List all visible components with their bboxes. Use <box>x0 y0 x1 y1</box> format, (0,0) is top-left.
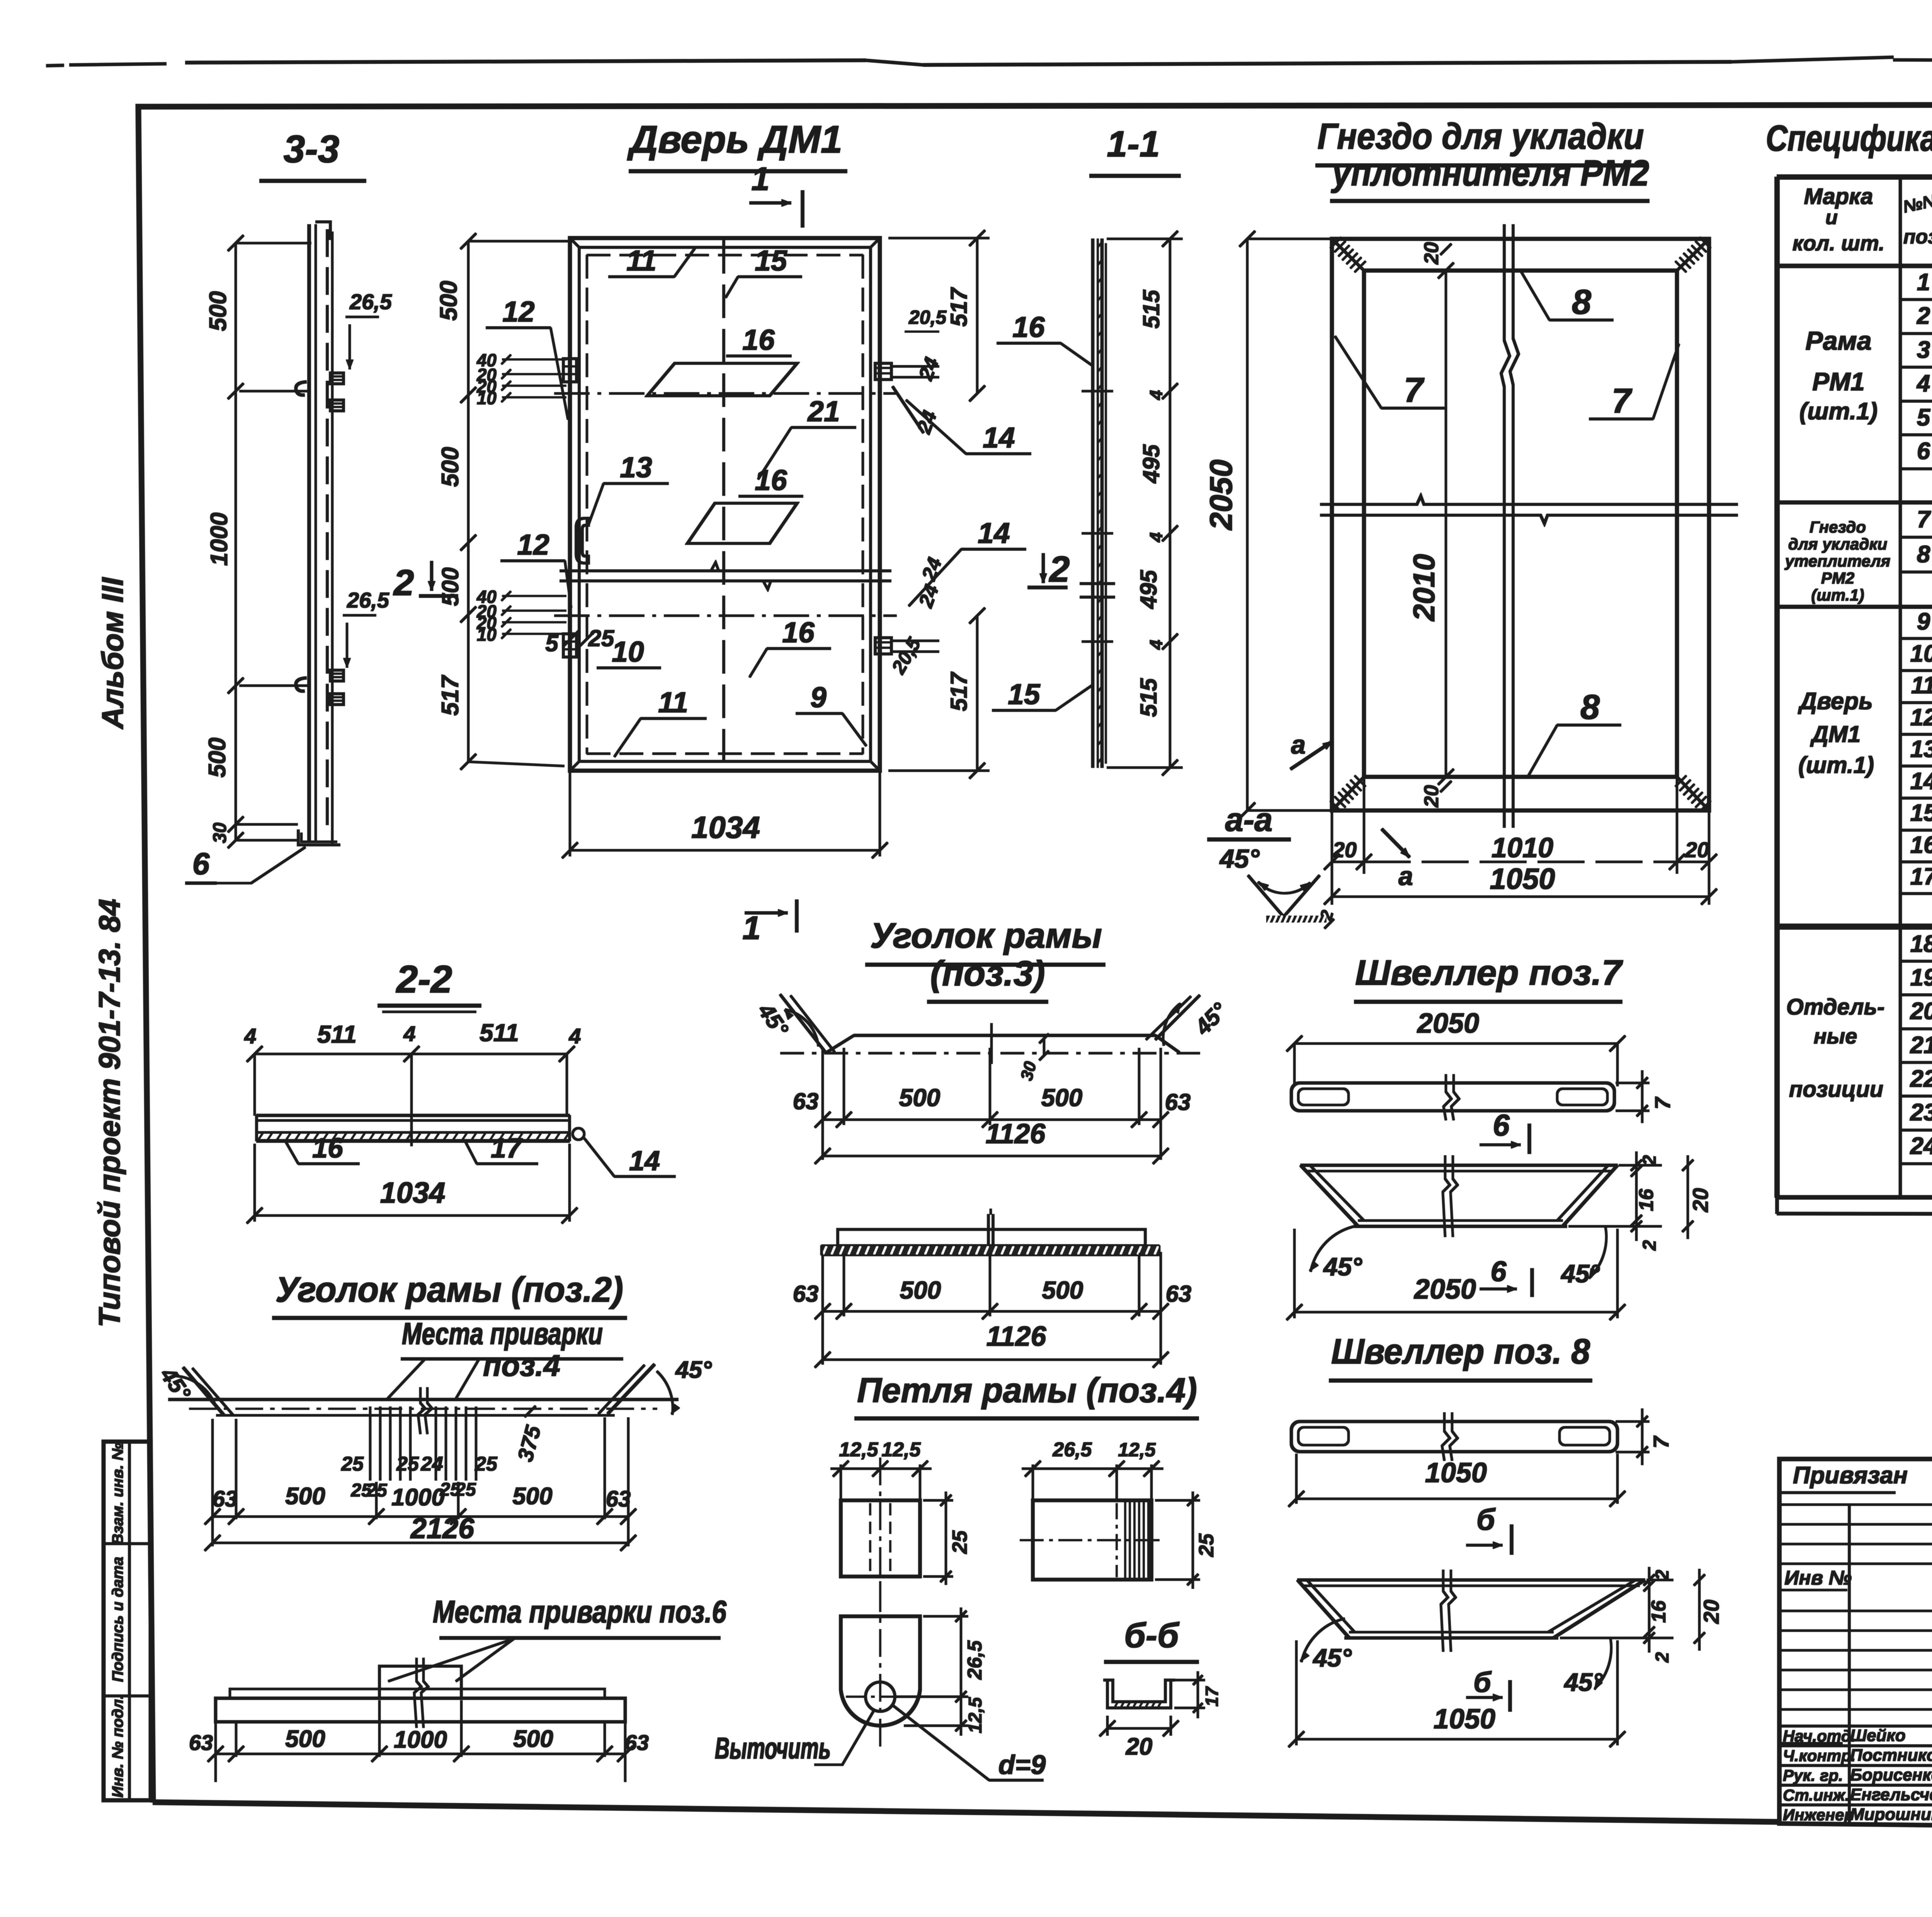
svg-text:14: 14 <box>978 517 1010 549</box>
svg-text:2: 2 <box>1652 1652 1673 1663</box>
svg-text:Швеллер поз. 8: Швеллер поз. 8 <box>1331 1332 1590 1371</box>
svg-text:4: 4 <box>1146 640 1166 650</box>
svg-text:12,5: 12,5 <box>965 1697 986 1733</box>
svg-text:7: 7 <box>1650 1096 1675 1110</box>
svg-text:13: 13 <box>620 451 652 484</box>
svg-text:17: 17 <box>491 1133 523 1164</box>
svg-text:511: 511 <box>480 1019 519 1047</box>
svg-text:63: 63 <box>793 1088 819 1114</box>
svg-text:13: 13 <box>1910 736 1932 763</box>
svg-text:17: 17 <box>1202 1686 1222 1707</box>
svg-text:позиции: позиции <box>1789 1077 1883 1102</box>
svg-text:12,5: 12,5 <box>1118 1439 1156 1461</box>
svg-text:63: 63 <box>625 1730 649 1755</box>
svg-text:Мирошникова: Мирошникова <box>1850 1805 1932 1824</box>
svg-text:Дверь ДМ1: Дверь ДМ1 <box>627 118 842 161</box>
svg-text:26,5: 26,5 <box>1052 1439 1092 1461</box>
svg-text:12: 12 <box>502 295 534 328</box>
svg-text:12,5: 12,5 <box>881 1439 921 1461</box>
svg-text:3-3: 3-3 <box>284 128 340 171</box>
svg-text:поз.4: поз.4 <box>483 1348 560 1382</box>
svg-text:511: 511 <box>317 1020 357 1048</box>
svg-text:10: 10 <box>1910 640 1932 667</box>
svg-text:45°: 45° <box>1323 1252 1362 1281</box>
svg-text:15: 15 <box>1910 800 1932 826</box>
svg-text:11: 11 <box>1911 672 1932 699</box>
svg-text:1: 1 <box>751 161 769 197</box>
svg-text:20: 20 <box>1910 998 1932 1025</box>
svg-text:7: 7 <box>1649 1435 1673 1449</box>
svg-text:7: 7 <box>1917 506 1931 533</box>
svg-text:Места приварки: Места приварки <box>402 1316 603 1351</box>
svg-text:24: 24 <box>915 354 944 383</box>
svg-text:Рама: Рама <box>1805 326 1871 356</box>
svg-text:500: 500 <box>205 291 231 331</box>
svg-text:поз.: поз. <box>1903 226 1932 248</box>
svg-text:Места приварки поз.6: Места приварки поз.6 <box>433 1594 727 1629</box>
svg-text:20: 20 <box>1420 242 1443 265</box>
svg-text:4: 4 <box>1146 390 1166 400</box>
svg-text:20: 20 <box>1420 785 1443 808</box>
svg-text:ДМ1: ДМ1 <box>1810 721 1861 747</box>
svg-text:Спецификация стали на герметич: Спецификация стали на герметическую двер… <box>1766 118 1932 159</box>
svg-text:Нач.отд.: Нач.отд. <box>1783 1727 1855 1745</box>
svg-text:1126: 1126 <box>986 1119 1046 1149</box>
svg-text:16: 16 <box>742 323 775 356</box>
svg-text:Рук. гр.: Рук. гр. <box>1783 1766 1843 1784</box>
svg-text:1: 1 <box>1917 269 1930 296</box>
svg-text:20: 20 <box>1688 1188 1713 1212</box>
svg-text:Дверь: Дверь <box>1798 688 1873 715</box>
svg-text:45°: 45° <box>1219 844 1260 873</box>
svg-text:19: 19 <box>1910 964 1932 991</box>
svg-text:Гнездо для укладки: Гнездо для укладки <box>1318 116 1644 157</box>
svg-text:(шт.1): (шт.1) <box>1798 752 1874 778</box>
svg-text:Гнездо: Гнездо <box>1810 518 1866 536</box>
svg-text:25: 25 <box>341 1453 364 1475</box>
svg-text:б: б <box>1476 1502 1496 1536</box>
svg-text:Уголок рамы: Уголок рамы <box>870 916 1102 955</box>
svg-text:16: 16 <box>312 1133 344 1164</box>
svg-text:2: 2 <box>393 562 414 603</box>
svg-text:7: 7 <box>1404 371 1425 410</box>
svg-text:20,5: 20,5 <box>908 306 947 328</box>
svg-text:1126: 1126 <box>986 1321 1047 1352</box>
svg-text:500: 500 <box>285 1726 325 1752</box>
svg-text:12,5: 12,5 <box>839 1439 878 1461</box>
svg-text:45°: 45° <box>1312 1643 1352 1672</box>
svg-text:45°: 45° <box>1190 998 1232 1040</box>
svg-text:Подпись и дата: Подпись и дата <box>109 1557 126 1682</box>
svg-text:Альбом III: Альбом III <box>95 577 129 730</box>
svg-text:14: 14 <box>629 1146 660 1176</box>
svg-text:1050: 1050 <box>1490 863 1555 896</box>
svg-text:25: 25 <box>588 625 615 651</box>
svg-text:63: 63 <box>793 1281 819 1307</box>
svg-text:500: 500 <box>1041 1084 1083 1112</box>
svg-text:2050: 2050 <box>1204 460 1239 531</box>
svg-text:16: 16 <box>1012 311 1045 343</box>
svg-text:9: 9 <box>1917 608 1930 635</box>
svg-text:1000: 1000 <box>391 1484 445 1511</box>
svg-text:2050: 2050 <box>1413 1274 1476 1305</box>
svg-text:2050: 2050 <box>1417 1008 1479 1039</box>
svg-text:18: 18 <box>1910 931 1932 957</box>
svg-text:4: 4 <box>1146 532 1166 543</box>
svg-text:5: 5 <box>1917 404 1931 431</box>
svg-text:4: 4 <box>403 1021 415 1046</box>
svg-text:500: 500 <box>435 281 462 320</box>
svg-text:20: 20 <box>1699 1600 1723 1624</box>
svg-text:26,5: 26,5 <box>964 1640 986 1680</box>
svg-text:30: 30 <box>1017 1059 1040 1083</box>
svg-text:Привязан: Привязан <box>1793 1462 1908 1489</box>
svg-text:Ст.инж.: Ст.инж. <box>1783 1786 1849 1804</box>
svg-text:2: 2 <box>1917 303 1930 329</box>
svg-text:16: 16 <box>782 616 815 649</box>
svg-text:11: 11 <box>658 686 688 718</box>
svg-text:495: 495 <box>1136 569 1162 609</box>
svg-text:и: и <box>1825 206 1838 229</box>
svg-text:d=9: d=9 <box>998 1750 1046 1780</box>
svg-text:1000: 1000 <box>206 512 233 566</box>
svg-text:Инв. № подл.: Инв. № подл. <box>109 1695 126 1798</box>
svg-text:3: 3 <box>1917 337 1930 363</box>
svg-text:517: 517 <box>437 675 464 716</box>
svg-text:12: 12 <box>1910 704 1932 731</box>
svg-text:1034: 1034 <box>380 1176 445 1209</box>
svg-text:375: 375 <box>513 1423 546 1464</box>
svg-text:а: а <box>1398 861 1413 891</box>
svg-text:1-1: 1-1 <box>1107 124 1160 165</box>
svg-text:кол. шт.: кол. шт. <box>1793 231 1885 255</box>
svg-text:500: 500 <box>437 567 463 606</box>
svg-text:Енгельсчева: Енгельсчева <box>1850 1785 1932 1804</box>
svg-text:РМ2: РМ2 <box>1821 569 1854 587</box>
svg-text:500: 500 <box>285 1483 325 1510</box>
svg-text:25: 25 <box>474 1453 498 1475</box>
svg-text:25: 25 <box>1195 1533 1218 1557</box>
svg-text:12: 12 <box>517 528 549 561</box>
svg-text:25: 25 <box>396 1453 419 1475</box>
svg-text:500: 500 <box>899 1084 940 1112</box>
svg-text:7: 7 <box>1612 382 1633 421</box>
svg-text:26,5: 26,5 <box>347 588 389 612</box>
svg-text:500: 500 <box>900 1276 941 1304</box>
svg-text:16: 16 <box>755 464 787 496</box>
svg-text:уплотнителя РМ2: уплотнителя РМ2 <box>1331 153 1649 194</box>
svg-text:517: 517 <box>946 287 972 327</box>
svg-text:500: 500 <box>513 1726 553 1752</box>
svg-text:14: 14 <box>1910 768 1932 795</box>
svg-text:б-б: б-б <box>1124 1616 1180 1655</box>
svg-text:а-а: а-а <box>1225 802 1273 838</box>
svg-text:1034: 1034 <box>691 810 760 844</box>
svg-text:63: 63 <box>189 1730 213 1755</box>
svg-text:63: 63 <box>1166 1281 1192 1307</box>
svg-text:515: 515 <box>1138 289 1164 329</box>
svg-text:16: 16 <box>1910 832 1932 858</box>
svg-text:30: 30 <box>210 822 230 843</box>
svg-text:515: 515 <box>1136 678 1162 717</box>
svg-text:45°: 45° <box>675 1357 712 1383</box>
svg-text:24: 24 <box>420 1453 443 1475</box>
svg-text:Инженер: Инженер <box>1783 1806 1854 1824</box>
svg-text:20: 20 <box>1685 838 1709 862</box>
svg-text:10: 10 <box>612 635 644 668</box>
svg-text:63: 63 <box>1165 1089 1191 1115</box>
svg-text:№№: №№ <box>1901 190 1932 216</box>
svg-text:6: 6 <box>1490 1255 1507 1287</box>
svg-text:20: 20 <box>1332 838 1357 862</box>
svg-text:10: 10 <box>477 388 497 408</box>
svg-text:2: 2 <box>1049 549 1070 590</box>
svg-text:Борисенко: Борисенко <box>1850 1765 1932 1784</box>
svg-text:2010: 2010 <box>1407 554 1441 622</box>
svg-text:8: 8 <box>1572 283 1591 322</box>
svg-text:Взам. инв. №: Взам. инв. № <box>109 1443 126 1545</box>
svg-text:500: 500 <box>512 1483 552 1510</box>
svg-text:8: 8 <box>1580 688 1600 727</box>
svg-text:утеплителя: утеплителя <box>1784 552 1890 570</box>
svg-text:а: а <box>1291 730 1306 759</box>
svg-text:2-2: 2-2 <box>396 958 452 1001</box>
svg-text:(шт.1): (шт.1) <box>1799 398 1878 425</box>
svg-text:1: 1 <box>742 910 760 947</box>
svg-text:23: 23 <box>1910 1099 1932 1126</box>
svg-text:25: 25 <box>948 1530 971 1554</box>
svg-text:6: 6 <box>1493 1108 1510 1142</box>
svg-text:2: 2 <box>1652 1570 1673 1580</box>
svg-text:Инв №: Инв № <box>1784 1567 1852 1589</box>
svg-text:24: 24 <box>913 408 942 437</box>
svg-text:63: 63 <box>606 1486 631 1512</box>
svg-text:б: б <box>1473 1666 1492 1698</box>
svg-text:500: 500 <box>437 447 464 487</box>
svg-text:4: 4 <box>568 1024 581 1048</box>
svg-text:Шейко: Шейко <box>1850 1726 1906 1745</box>
svg-text:ные: ные <box>1814 1024 1857 1048</box>
svg-text:1050: 1050 <box>1425 1457 1487 1488</box>
svg-text:Швеллер поз.7: Швеллер поз.7 <box>1355 953 1623 993</box>
svg-text:17: 17 <box>1910 863 1932 890</box>
svg-text:10: 10 <box>477 625 497 645</box>
svg-text:4: 4 <box>1916 370 1930 397</box>
svg-text:Выточить: Выточить <box>715 1731 831 1765</box>
svg-text:24: 24 <box>1910 1133 1932 1159</box>
svg-text:16: 16 <box>1648 1600 1670 1623</box>
svg-text:2126: 2126 <box>410 1512 474 1544</box>
svg-text:(поз.3): (поз.3) <box>930 954 1045 993</box>
svg-text:21: 21 <box>1910 1032 1932 1059</box>
svg-text:1050: 1050 <box>1434 1704 1495 1735</box>
svg-text:20: 20 <box>1126 1733 1153 1760</box>
svg-text:(шт.1): (шт.1) <box>1811 586 1864 604</box>
svg-text:11: 11 <box>626 244 656 277</box>
svg-text:Отдель-: Отдель- <box>1786 994 1885 1020</box>
svg-text:6: 6 <box>1917 438 1930 465</box>
svg-text:для укладки: для укладки <box>1788 535 1888 553</box>
svg-text:РМ1: РМ1 <box>1812 367 1865 396</box>
svg-text:1000: 1000 <box>394 1726 447 1753</box>
svg-text:8: 8 <box>1917 541 1930 568</box>
svg-text:Уголок рамы (поз.2): Уголок рамы (поз.2) <box>276 1270 623 1309</box>
svg-text:517: 517 <box>946 671 972 711</box>
svg-text:15: 15 <box>1008 678 1041 710</box>
svg-text:Ч.контр.: Ч.контр. <box>1783 1747 1855 1765</box>
svg-text:1010: 1010 <box>1492 833 1553 863</box>
svg-text:Постников: Постников <box>1850 1746 1932 1765</box>
svg-text:2: 2 <box>1639 1240 1660 1251</box>
svg-text:21: 21 <box>807 395 840 427</box>
svg-text:Петля рамы (поз.4): Петля рамы (поз.4) <box>857 1371 1197 1410</box>
svg-text:14: 14 <box>983 421 1015 454</box>
svg-text:15: 15 <box>755 244 787 277</box>
svg-text:4: 4 <box>244 1024 256 1048</box>
svg-text:16: 16 <box>1635 1188 1658 1211</box>
svg-text:63: 63 <box>213 1486 238 1512</box>
svg-text:500: 500 <box>1042 1276 1083 1304</box>
svg-text:9: 9 <box>810 681 827 713</box>
svg-text:Марка: Марка <box>1804 184 1873 209</box>
svg-text:495: 495 <box>1138 444 1164 484</box>
svg-text:22: 22 <box>1910 1066 1932 1092</box>
svg-text:26,5: 26,5 <box>349 289 392 314</box>
svg-text:Типовой проект 901-7-13. 84: Типовой проект 901-7-13. 84 <box>92 899 126 1328</box>
svg-text:6: 6 <box>192 846 210 881</box>
svg-text:2: 2 <box>1639 1155 1660 1166</box>
svg-text:500: 500 <box>204 737 231 777</box>
